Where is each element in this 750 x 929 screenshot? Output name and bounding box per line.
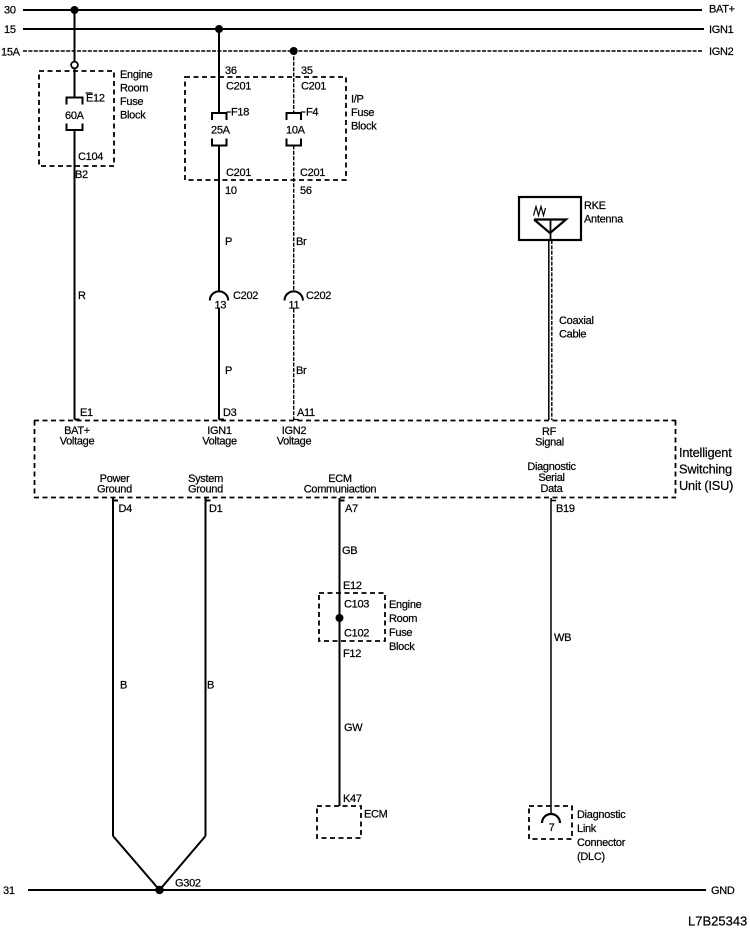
wire ISU pin B19 diagnostic serial data, label WB [551,498,575,814]
label Engine Room Fuse Block (top) [120,69,153,122]
svg-text:Cable: Cable [559,329,586,341]
svg-text:B19: B19 [556,503,575,515]
svg-text:C201: C201 [226,167,251,179]
svg-text:Voltage: Voltage [202,436,237,448]
Diagnostic Link Connector (DLC) dashed box [529,806,572,839]
wire ISU pin A7 ECM communication, label GB [340,498,362,806]
svg-text:Room: Room [389,613,417,625]
svg-text:36: 36 [225,65,237,77]
svg-text:WB: WB [554,632,571,644]
wire bus 15A IGN2 [1,46,734,59]
node junction C103/C102 [336,599,370,640]
Engine Room Fuse Block (top) dashed box [39,71,114,166]
svg-text:Ground: Ground [97,484,132,496]
svg-text:B: B [120,680,127,692]
svg-text:B: B [207,680,214,692]
svg-text:Voltage: Voltage [60,436,95,448]
wire bus 15 IGN1 [4,24,734,36]
svg-text:C202: C202 [306,290,331,302]
svg-text:E1: E1 [80,407,93,419]
ECM dashed box [317,806,388,838]
fuse E12 60A [65,93,105,131]
svg-text:P: P [225,365,232,377]
svg-text:(DLC): (DLC) [577,851,605,863]
svg-text:13: 13 [215,300,227,312]
I/P Fuse Block dashed box [185,77,346,180]
svg-text:A11: A11 [297,407,315,419]
ISU pin labels Diagnostic Serial Data [527,461,576,495]
svg-text:15: 15 [4,24,16,36]
svg-text:7: 7 [549,822,555,834]
node junction on bus 30 [71,6,79,14]
svg-text:Link: Link [577,823,597,835]
fuse F4 10A [286,107,318,146]
svg-text:31: 31 [3,885,15,897]
svg-text:Switching: Switching [679,462,732,477]
svg-text:C202: C202 [233,290,258,302]
svg-text:E12: E12 [343,580,362,592]
connector C202 pin 13 [210,290,258,312]
ISU pin labels IGN2 Voltage [277,425,312,448]
wire ground V to G302 [113,836,206,890]
wire F12 to ECM pin K47, label GW [343,648,363,805]
wire fuse to ISU pin E1, label R [75,130,104,420]
svg-text:IGN2: IGN2 [709,46,734,58]
label I/P Fuse Block [351,94,377,133]
wire BAT+ drop to connector [74,10,76,62]
Engine Room Fuse Block (pass-through) dashed box [319,593,385,641]
node ground junction G302 [155,886,163,894]
ISU pin labels BAT+ Voltage [60,425,95,448]
svg-text:Diagnostic: Diagnostic [577,809,626,821]
wire C202 to ISU pin D3, label P [219,309,237,420]
RKE Antenna box [519,197,624,240]
svg-text:Br: Br [296,365,307,377]
wire C202 to ISU pin A11, label Br [294,309,315,420]
svg-text:10A: 10A [286,125,306,137]
Intelligent Switching Unit (ISU) dashed box [34,421,676,498]
svg-text:F12: F12 [343,648,361,660]
label Intelligent Switching Unit (ISU) [679,445,733,493]
svg-text:Signal: Signal [535,436,564,448]
wire ISU pin D4 power ground [113,498,132,836]
svg-text:Intelligent: Intelligent [679,445,732,460]
svg-text:15A: 15A [1,47,21,59]
svg-text:A7: A7 [345,503,358,515]
svg-text:D4: D4 [119,503,133,515]
svg-text:Block: Block [389,641,415,653]
node junction on bus 15A [290,47,298,55]
svg-text:Block: Block [351,121,377,133]
svg-text:Room: Room [120,83,148,95]
svg-text:G302: G302 [175,878,201,890]
wire bus 30 BAT+ [4,4,735,17]
svg-text:35: 35 [301,65,313,77]
svg-text:Unit (ISU): Unit (ISU) [679,478,733,493]
ISU pin labels Power Ground [97,473,132,496]
wire connector to fuse E12 [74,69,76,98]
svg-text:Engine: Engine [389,599,422,611]
svg-text:Engine: Engine [120,69,153,81]
svg-text:30: 30 [4,5,16,17]
connector ring at fuse block entry [71,62,78,69]
svg-text:IGN1: IGN1 [709,24,734,36]
node junction on bus 15 [215,25,223,33]
svg-text:Communiaction: Communiaction [304,484,377,496]
svg-text:Br: Br [296,236,307,248]
ISU pin labels RF Signal [535,426,564,448]
svg-text:Voltage: Voltage [277,436,312,448]
svg-text:56: 56 [300,185,312,197]
svg-text:ECM: ECM [364,809,388,821]
connector DLC pin 7 [542,814,560,834]
label Engine Room Fuse Block (pass-through) [389,599,422,653]
svg-text:Connector: Connector [577,837,626,849]
wire F4 to connector C202, label Br [294,146,326,292]
svg-text:Block: Block [120,110,146,122]
svg-text:L7B25343: L7B25343 [688,914,747,929]
wire F18 to connector C202, label P [219,146,251,292]
label Diagnostic Link Connector (DLC) [577,809,626,863]
wire IGN2 drop to fuse F4 [294,51,327,113]
ISU pin labels IGN1 Voltage [202,425,237,448]
svg-text:C201: C201 [300,167,325,179]
svg-text:Fuse: Fuse [351,107,374,119]
svg-text:C102: C102 [344,628,369,640]
wire coaxial cable to ISU RF pin [549,240,594,420]
svg-text:Fuse: Fuse [389,627,412,639]
svg-text:Fuse: Fuse [120,96,143,108]
wire bus 31 GND [3,885,735,897]
svg-text:Coaxial: Coaxial [559,315,594,327]
ISU pin labels ECM Communiaction [304,473,377,496]
svg-text:B2: B2 [75,169,88,181]
svg-text:F18: F18 [231,107,249,119]
svg-text:GB: GB [342,545,357,557]
svg-text:GW: GW [344,722,363,734]
svg-text:GND: GND [711,885,735,897]
svg-text:D1: D1 [209,503,223,515]
svg-text:K47: K47 [343,793,362,805]
svg-text:Ground: Ground [188,484,223,496]
svg-text:C201: C201 [226,81,251,93]
connector C202 pin 11 [285,290,332,312]
svg-text:BAT+: BAT+ [709,4,735,16]
svg-text:C103: C103 [344,599,369,611]
svg-text:60A: 60A [65,110,85,122]
svg-text:F4: F4 [306,107,318,119]
ISU pin labels System Ground [188,473,223,496]
svg-text:E12: E12 [86,93,105,105]
svg-text:Data: Data [540,483,563,495]
svg-text:R: R [78,290,86,302]
svg-text:C201: C201 [301,81,326,93]
wire IGN1 drop to fuse F18 [219,29,251,113]
svg-text:Antenna: Antenna [584,214,624,226]
svg-text:C104: C104 [78,151,103,163]
svg-text:P: P [225,236,232,248]
fuse F18 25A [211,107,249,146]
wire ISU pin D1 system ground [206,498,223,836]
svg-text:RKE: RKE [584,200,606,212]
svg-text:D3: D3 [223,407,237,419]
svg-text:25A: 25A [211,125,231,137]
svg-text:I/P: I/P [351,94,364,106]
svg-text:10: 10 [225,185,237,197]
